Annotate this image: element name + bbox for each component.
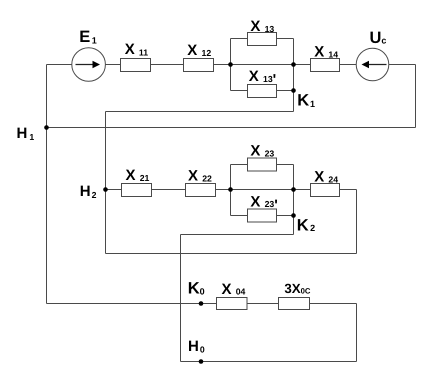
node H0 junction dot [199, 359, 204, 364]
resistor X22 [186, 184, 216, 197]
svg-text:X 14: X 14 [314, 44, 338, 61]
svg-text:H1: H1 [17, 125, 35, 142]
wire: bottom row horizontal y=303.5 (K0 row) [47, 303, 357, 305]
resistor X11 [121, 59, 151, 72]
arrow of source E1 (points right) [76, 61, 101, 69]
node: parallel block 1 right junction dot [291, 62, 296, 67]
svg-text:X 22: X 22 [188, 167, 212, 184]
wire: left vertical x=46.5 from top wire down to bottom row [46, 65, 48, 304]
wire: loop 2 main horizontal y=189.5 [106, 189, 357, 191]
wire: parallel block 1 left vertical [230, 39, 232, 91]
wire: K2/H0 vertical x=180.5 [180, 235, 182, 362]
svg-text:H0: H0 [188, 338, 205, 355]
wire: bottom horizontal y=361.5 (H0 row) [181, 361, 357, 363]
wire: parallel block 1 top branch [231, 38, 294, 40]
svg-text:3X0C: 3X0C [284, 281, 311, 296]
resistor X14 [311, 59, 340, 72]
wire: loop 2 right vertical x=356.5 [356, 190, 358, 254]
svg-text:X 24: X 24 [314, 169, 338, 186]
svg-text:H2: H2 [80, 183, 97, 200]
node H1 junction dot [44, 125, 49, 130]
wire: parallel block 2 top branch [231, 164, 294, 166]
resistor X04 [217, 298, 248, 310]
node K2 junction dot [291, 213, 296, 218]
svg-text:X 23: X 23 [250, 143, 274, 160]
resistor X13 [248, 33, 277, 46]
arrow of source Uc (points left) [362, 61, 387, 69]
svg-text:X 11: X 11 [125, 41, 149, 58]
wire: loop 2 bottom horizontal y=253.5 [106, 253, 357, 255]
resistor X12 [184, 59, 214, 72]
node K0 junction dot [199, 301, 204, 306]
node H2 junction dot [103, 187, 108, 192]
wire: right vertical x=415.5 (Uc to H1 line) [415, 65, 417, 128]
wire: K1 return horizontal y=111.5 [106, 111, 294, 113]
wire: parallel block 2 left vertical [230, 165, 232, 216]
svg-text:Uc: Uc [370, 29, 387, 47]
wire: middle vertical x=105.5 (K1 return through H2 to loop2 bottom) [105, 112, 107, 254]
resistor X24 [311, 184, 340, 197]
svg-text:X 04: X 04 [222, 281, 246, 298]
svg-text:X 12: X 12 [187, 42, 211, 59]
wire: bottom rect right vertical x=356.5 [356, 304, 358, 362]
wire: K2 return horizontal y=234.5 [181, 234, 294, 236]
svg-text:K0: K0 [188, 279, 205, 297]
wire: parallel block 2 bottom branch [231, 215, 294, 217]
wire: top main horizontal (E1 loop) y=64.5 [47, 64, 416, 66]
resistor X23 [248, 158, 277, 171]
svg-text:K2: K2 [297, 217, 315, 235]
svg-text:X 21: X 21 [126, 167, 150, 184]
source Uc circle [356, 48, 389, 81]
node: parallel block 2 right junction dot [291, 187, 296, 192]
wire: parallel block 1 bottom branch [231, 90, 294, 92]
svg-text:X 13: X 13 [250, 18, 274, 35]
resistor 3X0C [279, 298, 310, 310]
resistor X21 [122, 184, 152, 197]
svg-text:E1: E1 [79, 28, 97, 46]
resistor X23prime [248, 209, 277, 222]
wire: parallel block 1 right vertical (down to K1 return) [293, 39, 295, 112]
wire: parallel block 2 right vertical (down to K2 return) [293, 165, 295, 235]
node: parallel block 1 left junction dot [228, 62, 233, 67]
wire: H1 horizontal y=127.5 [47, 127, 416, 129]
svg-text:K1: K1 [297, 91, 315, 109]
resistor X13prime [248, 85, 277, 98]
node K1 junction dot [291, 88, 296, 93]
node: parallel block 2 left junction dot [228, 187, 233, 192]
source E1 circle [72, 48, 106, 82]
